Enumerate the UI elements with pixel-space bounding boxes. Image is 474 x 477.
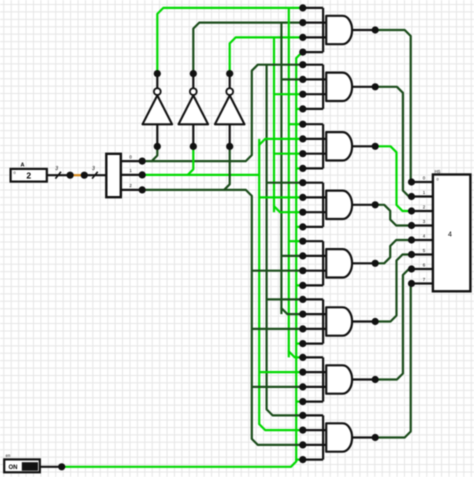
svg-text:4: 4 xyxy=(448,232,452,239)
svg-text:3: 3 xyxy=(92,166,95,172)
svg-text:A: A xyxy=(21,162,25,168)
svg-text:ON: ON xyxy=(9,465,18,471)
svg-text:en: en xyxy=(6,453,11,458)
svg-text:HS: HS xyxy=(435,169,441,174)
svg-text:0: 0 xyxy=(436,178,438,182)
svg-text:0: 0 xyxy=(13,171,15,175)
svg-text:2: 2 xyxy=(26,171,31,181)
svg-text:3: 3 xyxy=(55,166,58,172)
